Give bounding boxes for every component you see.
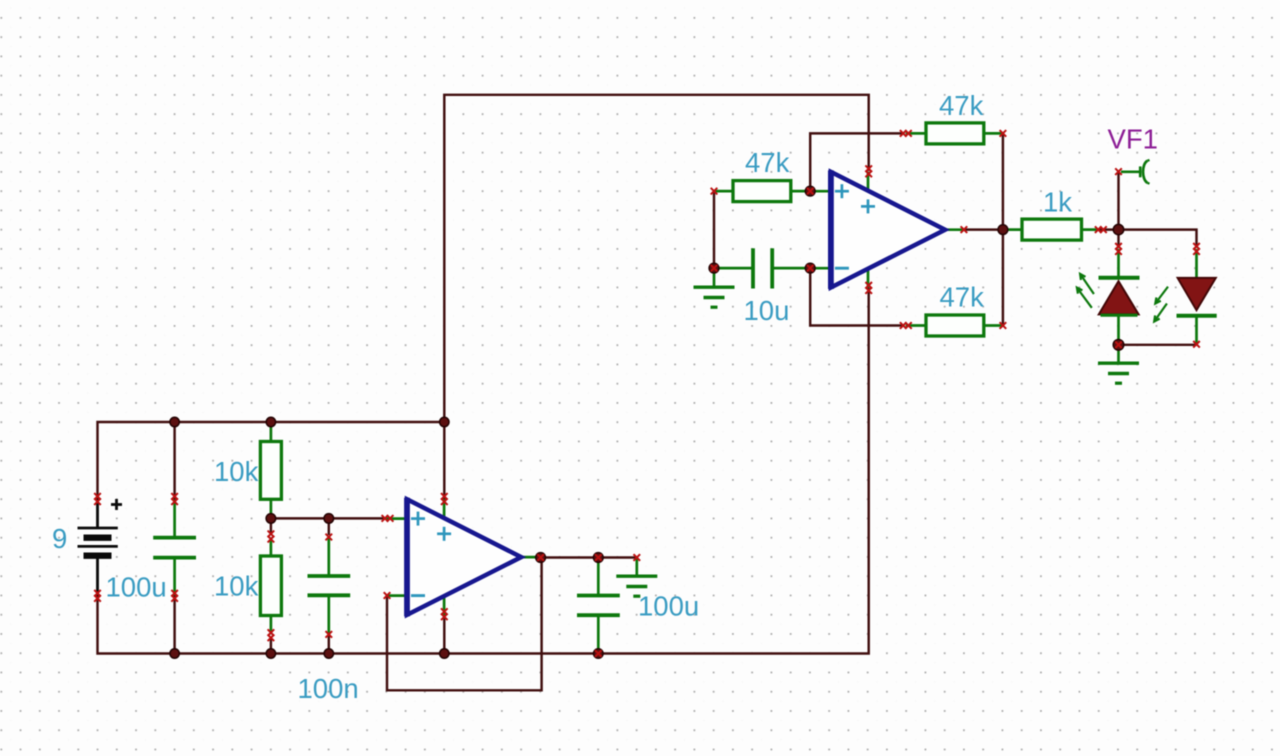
terminal battery +: [94, 493, 101, 505]
terminal probe VF1: [1115, 168, 1122, 175]
capacitor C2 100n: [308, 538, 351, 634]
terminal opamp1 out: [537, 554, 544, 561]
wire bottom rail: battery minus along bottom and up to opamp2 V- pin: [98, 288, 869, 654]
node V+ rail / C1: [170, 417, 179, 426]
terminal C2 top: [326, 534, 333, 541]
wire opamp1 V- pin drop to bottom rail: [443, 614, 445, 654]
resistor R5 47k bottom: [906, 315, 1003, 336]
terminal LED D1 bottom / node: [1115, 342, 1122, 349]
terminal R4 right: [1000, 130, 1007, 137]
terminal R6 left (under node): [1000, 226, 1007, 233]
ground G1 (output reference): [616, 558, 657, 597]
voltage probe VF1: [1121, 160, 1150, 184]
node bottom rail / C3: [594, 649, 604, 659]
capacitor C3 100u: [577, 558, 620, 654]
label 100n (C2): [298, 673, 359, 704]
svg-text:10k: 10k: [214, 571, 259, 602]
terminal opamp1 in-: [384, 592, 391, 599]
wire opamp2 output to node: [964, 228, 1003, 230]
battery value label 9: [52, 523, 67, 554]
wire VF1 node to LED D1 stub: [1117, 230, 1119, 248]
svg-text:10k: 10k: [214, 456, 259, 487]
resistor R2 10k lower: [260, 538, 281, 634]
wire R2 top stub: [270, 518, 272, 534]
ground G2 (oscillator reference): [694, 268, 735, 307]
capacitor C4 10u: [714, 248, 810, 288]
wire bottom 47k right terminal up to output node: [1002, 230, 1004, 326]
node opamp1 output: [536, 553, 546, 563]
terminal C1 bottom: [171, 590, 178, 602]
terminal ground G1: [634, 554, 641, 561]
wire VF1 probe drop: [1117, 172, 1119, 230]
terminal R3 right / node: [807, 188, 814, 195]
terminal opamp1 V-: [441, 608, 448, 620]
terminal LED D2 bottom: [1193, 341, 1200, 348]
ground G3 (LED return): [1098, 345, 1139, 383]
node V+ rail / R1: [266, 417, 275, 426]
node opamp2 output: [998, 225, 1008, 235]
resistor R4 47k top: [906, 123, 1003, 144]
terminal R4 left: [900, 130, 912, 137]
terminal opamp2 out: [961, 226, 968, 233]
terminal C2 bottom: [326, 631, 333, 638]
label 47k (R4): [939, 90, 984, 121]
node opamp2 inverting input: [805, 263, 815, 273]
svg-text:100u: 100u: [106, 572, 167, 603]
svg-text:1k: 1k: [1043, 187, 1072, 218]
label 100u (C1): [106, 572, 167, 603]
svg-text:47k: 47k: [940, 282, 985, 313]
terminal LED D2 top: [1193, 243, 1200, 255]
label 47k (R3): [745, 147, 790, 178]
wire node R1-bottom to opamp1 non-inverting input: [271, 517, 386, 519]
wire C2 top stub: [328, 518, 330, 535]
node ground / 10u / 47k: [709, 263, 719, 273]
svg-text:100n: 100n: [298, 673, 359, 704]
label 10u (C4): [744, 295, 790, 326]
node C3 top: [593, 553, 603, 563]
wire top 47k right terminal down to output node: [1002, 133, 1004, 229]
terminal opamp2 V-: [865, 282, 872, 294]
label 1k (R6): [1043, 187, 1072, 218]
node LED cathodes / ground: [1113, 340, 1124, 351]
terminal R2 bottom: [268, 629, 275, 641]
wire C2 bottom stub: [328, 635, 330, 654]
svg-text:10u: 10u: [744, 295, 790, 326]
wire opamp2 non-inverting node up and over to top 47k: [810, 133, 904, 191]
terminal C3 top: [595, 554, 602, 561]
capacitor C1 100u: [153, 499, 196, 595]
node opamp2 non-inverting input: [805, 186, 815, 196]
wire long top feed: opamp1 V+ column up, across, down to opamp2 V+ pin: [444, 95, 868, 422]
node bottom rail / C2: [324, 649, 333, 658]
terminal opamp1 V+: [441, 493, 448, 505]
terminal C4 right / node: [807, 265, 814, 272]
LED D1 light arrows: [1077, 274, 1094, 308]
node R1-R2-C2 divider: [266, 514, 276, 524]
label VF1: [1108, 124, 1158, 155]
svg-text:100u: 100u: [638, 590, 699, 621]
wire VF1 node over and down to LED D2: [1119, 230, 1197, 248]
terminal LED D1 top: [1115, 243, 1122, 255]
terminal R5 right: [1000, 322, 1007, 329]
wire opamp2 inverting node down and over to bottom 47k: [810, 268, 904, 325]
terminal opamp1 in+: [382, 515, 394, 522]
resistor R3 47k left: [714, 181, 810, 202]
node bottom rail / opamp1 supply: [440, 649, 449, 658]
node bottom rail / R2: [266, 649, 275, 658]
terminal battery -: [94, 590, 101, 602]
LED D1 (up): [1099, 249, 1140, 345]
wire C1 bottom stub: [173, 595, 175, 654]
wire-end x (under node C2 top): [326, 515, 333, 522]
wire opamp1 feedback loop output to inverting input: [387, 558, 542, 691]
battery 9V: [78, 499, 123, 596]
svg-text:VF1: VF1: [1108, 124, 1158, 155]
node V+ rail / opamp1 supply: [440, 417, 449, 426]
resistor R6 1k: [1003, 219, 1099, 240]
wire R2 bottom stub: [270, 637, 272, 654]
svg-text:9: 9: [52, 523, 67, 554]
terminal R1 top (under node): [268, 419, 275, 426]
terminal R2 top: [268, 531, 275, 543]
terminal R5 left: [900, 322, 912, 329]
wire 1k right terminal to VF1 node: [1099, 228, 1119, 230]
terminal C3 bottom: [595, 650, 602, 657]
node bottom rail / C1: [170, 649, 179, 658]
op-amp U1: [385, 498, 541, 617]
terminal C4 left / node: [711, 265, 718, 272]
wire V+ rail from battery to opamp1 supply column: [98, 422, 445, 500]
resistor R1 10k upper: [260, 422, 281, 518]
wire left 47k left terminal down to ground/cap node: [713, 191, 715, 268]
node VF1 / 1k / LEDs: [1113, 224, 1123, 234]
wire opamp1 V+ pin drop: [443, 422, 445, 499]
label 47k (R5): [940, 282, 985, 313]
LED D2 light arrows: [1154, 287, 1168, 322]
node C2 top / input wire: [324, 514, 334, 524]
terminal opamp2 V+: [865, 165, 872, 177]
op-amp U2: [808, 170, 964, 289]
wire LED bottoms joining node: [1119, 344, 1197, 346]
label 10k (R2): [214, 571, 259, 602]
terminal R3 left: [711, 188, 718, 195]
svg-text:47k: 47k: [939, 90, 984, 121]
label 100u (C3): [638, 590, 699, 621]
wire C1 top stub: [173, 422, 175, 500]
terminal R1 bottom (under node): [268, 515, 275, 522]
label 10k (R1): [214, 456, 259, 487]
terminal C1 top: [171, 493, 178, 505]
LED D2 (down): [1177, 249, 1217, 345]
wire opamp1 output to bypass cap / ground terminal: [541, 556, 637, 558]
svg-text:47k: 47k: [745, 147, 790, 178]
terminal R6 right: [1095, 226, 1107, 233]
